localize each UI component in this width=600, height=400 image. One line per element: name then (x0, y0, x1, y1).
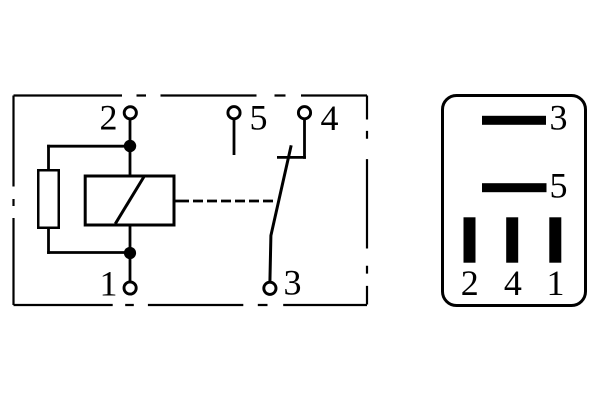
enclosure dash-dot border left edge (12, 96, 14, 306)
svg-text:1: 1 (547, 263, 565, 303)
switch movable contact arm (270, 145, 291, 282)
wire top horizontal to resistor branch (47, 145, 130, 148)
wire from terminal 2 to top junction (129, 119, 132, 145)
wire from terminal 4 down to contact (303, 119, 306, 159)
svg-text:2: 2 (100, 98, 118, 138)
wire from top junction into coil (129, 145, 132, 176)
terminal 5 circle (228, 107, 240, 119)
svg-text:1: 1 (100, 264, 118, 304)
wire stub below terminal 5 (233, 119, 236, 155)
wire from bottom junction to terminal 1 (129, 253, 132, 282)
svg-text:3: 3 (284, 263, 302, 303)
junction node bottom (124, 247, 136, 259)
junction node top (124, 140, 136, 152)
svg-text:4: 4 (321, 98, 339, 138)
wire resistor branch lower stub (47, 227, 50, 254)
enclosure dash-dot border top edge (14, 94, 368, 96)
coil diagonal stroke (115, 177, 144, 224)
pin 2 blade (vertical) (464, 217, 476, 262)
connector body outline (443, 96, 586, 306)
pin 4 blade (vertical) (506, 217, 518, 262)
wire bottom horizontal from resistor branch to bottom junction (47, 251, 130, 254)
terminal 1 circle (124, 282, 136, 294)
terminal 4 circle (298, 107, 310, 119)
resistor R (parallel to coil) (38, 170, 59, 228)
terminal 2 circle (124, 107, 136, 119)
terminal 3 circle (264, 282, 276, 294)
relay coil K1 box (85, 176, 174, 225)
svg-text:2: 2 (461, 263, 479, 303)
svg-text:3: 3 (550, 98, 568, 138)
svg-text:5: 5 (250, 98, 268, 138)
svg-text:5: 5 (550, 166, 568, 206)
enclosure dash-dot border right edge (366, 96, 368, 306)
pin 3 blade (horizontal) (482, 116, 546, 125)
mechanical link dashed line from coil to arm (175, 200, 277, 203)
wire from coil to bottom junction (129, 225, 132, 253)
wire resistor branch upper stub (47, 145, 50, 171)
enclosure dash-dot border bottom edge (14, 304, 368, 306)
pin 1 blade (vertical) (549, 217, 561, 262)
fixed contact horizontal bar (277, 156, 306, 159)
svg-text:4: 4 (504, 263, 522, 303)
pin 5 blade (horizontal) (482, 183, 547, 192)
